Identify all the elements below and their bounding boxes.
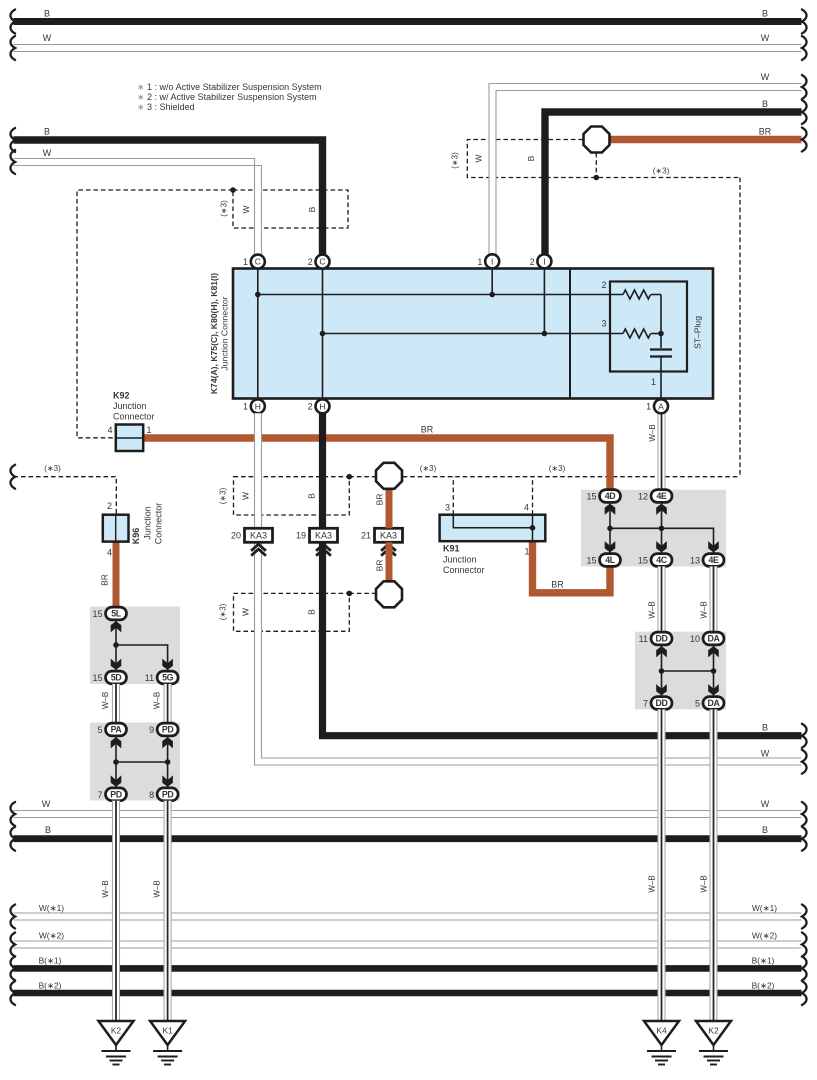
svg-text:BR: BR [100,574,110,586]
svg-text:B: B [762,723,768,733]
svg-text:9: 9 [149,725,154,735]
svg-text:W–B: W–B [153,880,162,897]
svg-text:B: B [307,609,317,615]
svg-text:W–B: W–B [700,875,709,892]
gray splice box R2 (DD/DA) [635,632,726,710]
wire-break W bus left [10,36,15,60]
svg-text:4D: 4D [605,491,615,501]
svg-text:K4: K4 [656,1026,667,1036]
svg-text:4: 4 [524,503,529,513]
svg-text:BR: BR [421,425,434,435]
splice 9 PD oval [157,723,178,736]
conductor 1C to 1H inside block [257,269,259,400]
wire B second-left going to pin 2C [14,140,323,255]
arrow up into 9PD [162,737,173,748]
gray splice box L2 (PA/PD) [90,723,180,801]
svg-text:1: 1 [646,402,651,412]
junction dot row2 x 2I [542,331,548,337]
junction connector K92 box [116,425,143,452]
wire-break W lower left [10,802,15,826]
wire-break B bus left [10,10,15,34]
svg-text:Connector: Connector [113,412,155,422]
wire-break B right mid [802,724,807,748]
svg-text:KA3: KA3 [250,531,267,541]
wire in splice R2 DD/DA [662,645,714,697]
wire-break B lower left [10,827,15,851]
wire BR octagon M1 to 21 KA3 [386,487,393,528]
svg-text:W–B: W–B [153,692,162,709]
svg-text:W: W [241,492,251,500]
junction connector K96 box [103,515,129,542]
svg-text:7: 7 [97,790,102,800]
wire-break B(*1) right [802,956,807,980]
svg-text:12: 12 [638,492,648,502]
arrow up into 12 4E [656,504,667,515]
junction dot splice R1 mid [659,526,665,532]
chevron arrows below 20 KA3 [251,544,266,556]
svg-text:5: 5 [695,699,700,709]
dashed horizontal mid y=476.7 main segment [403,476,740,478]
wire-break BR top right [802,128,807,152]
wire B from pin 2H down and right to edge [323,413,802,735]
shield dashed box mid-2 (W/B) [234,593,350,631]
capacitor C1 in ST-plug [650,350,672,357]
wire-break B(*2) left [10,981,15,1005]
svg-text:15: 15 [92,609,102,619]
junction dot splice L2 left [113,759,119,765]
wire in splice L2 PA/PD [116,736,168,788]
svg-text:W: W [43,148,52,158]
svg-text:2: 2 [107,501,112,511]
dashed stub below octagon T1 [595,153,597,178]
svg-text:W: W [43,33,52,43]
svg-text:BR: BR [375,560,385,572]
svg-text:1: 1 [243,257,248,267]
pin 1 H connector circle [251,399,265,413]
junction dot splice L2 right [165,759,171,765]
wire-break W(*2) left [10,933,15,957]
svg-text:C: C [255,257,261,267]
ST-Plug box [610,282,687,372]
svg-text:PA: PA [111,725,123,735]
svg-text:B: B [44,9,50,19]
bus wire B(*1) [14,965,802,972]
svg-text:B(∗2): B(∗2) [39,980,62,990]
shield ground octagon M2 [376,581,402,607]
wire-break W right mid [802,750,807,774]
splice 15 4L oval [600,554,621,567]
splice 15 4C oval [651,554,672,567]
conductor capacitor to pin 1A [660,357,662,400]
svg-text:H: H [255,401,261,411]
svg-text:1: 1 [524,547,529,557]
wire BR from K91 pin 1 to splice 15 4L [533,541,611,593]
svg-text:W: W [761,799,770,809]
dashed verticals to K91 pins 3 and 4 [453,477,532,515]
svg-text:11: 11 [145,673,154,683]
splice 10 DA oval [703,632,724,645]
svg-text:(∗3): (∗3) [220,200,229,217]
junction dot dashed box mid-1 corner [347,474,353,480]
svg-text:8: 8 [149,790,154,800]
conductor stub 2I [543,269,545,334]
svg-text:19: 19 [296,531,306,541]
junction dot on dashed outline at (233,190) [230,187,236,193]
shield ground octagon M1 [376,463,402,489]
wire W-B from pin 1A down to splice 12 4E [658,413,666,490]
wire R2 to vertical [651,294,661,296]
svg-text:W: W [42,799,51,809]
svg-text:B: B [307,493,317,499]
connector 21 KA3 box [375,528,403,542]
wire W top-right going to pin 1I [489,84,802,256]
svg-text:B: B [526,155,536,161]
svg-text:15: 15 [586,492,596,502]
svg-text:(∗3): (∗3) [44,464,61,473]
junction dot splice R2 left [659,668,665,674]
splice 15 5L oval [106,607,127,620]
arrow down into 5G [162,659,173,670]
splice 8 PD oval [157,788,178,801]
svg-text:(∗3): (∗3) [219,487,228,504]
arrow down into 7DD [656,684,667,695]
splice 15 5D oval [106,671,127,684]
wire W from pin 1H down and right to edge [255,413,802,765]
ground K4 [644,1021,679,1065]
arrow down into 5D [111,659,122,670]
wire-break W(*1) left [10,905,15,929]
svg-text:W: W [241,608,251,616]
svg-text:K2: K2 [708,1026,719,1036]
dashed vertical right side x=740 [739,178,741,477]
shield dashed box mid-1 (W/B) [234,477,350,515]
wire-break W lower right [802,802,807,826]
svg-text:DA: DA [708,698,721,708]
svg-text:(∗3): (∗3) [451,152,460,169]
splice 7 PD oval [106,788,127,801]
conductor row 2 to ST-plug resistor 3 [323,333,624,335]
wire-break W(*2) right [802,933,807,957]
svg-text:W–B: W–B [101,692,110,709]
splice 7 DD oval [651,697,672,710]
wire-break B bus right [802,10,807,34]
svg-text:5G: 5G [162,673,173,683]
conductor stub 1I [491,269,493,295]
splice 11 5G oval [157,671,178,684]
svg-text:5: 5 [97,725,102,735]
wire-break W(*1) right [802,905,807,929]
svg-text:4C: 4C [656,555,667,565]
wire-break B second left [10,128,15,152]
svg-text:1: 1 [651,377,656,387]
svg-text:3: 3 [445,503,450,513]
conductor 2C to 2H inside block [322,269,324,400]
svg-text:5D: 5D [111,673,121,683]
svg-text:(∗3): (∗3) [420,464,437,473]
svg-text:4E: 4E [709,555,719,565]
wire-break B(*2) right [802,981,807,1005]
shield ground octagon T1 [584,127,610,153]
svg-text:BR: BR [551,580,564,590]
svg-text:Connector: Connector [443,565,485,575]
svg-text:Junction: Junction [143,506,153,540]
svg-text:H: H [319,401,325,411]
svg-text:W: W [761,72,770,82]
svg-text:DA: DA [708,634,721,644]
svg-text:K92: K92 [113,391,130,401]
wire W-B 5G to 9PD [164,684,172,723]
resistor R2 in ST-plug [623,290,651,299]
junction dot ST-plug [658,331,664,337]
svg-text:2: 2 [601,280,606,290]
svg-text:K96: K96 [131,528,141,545]
svg-text:C: C [319,257,325,267]
wire W-B 5D to PA [112,684,120,723]
svg-text:K74(A), K75(C), K80(H), K81(I): K74(A), K75(C), K80(H), K81(I) [209,273,219,394]
shield outline (*3) to K92, left tall dashed box [77,190,233,438]
svg-text:A: A [658,401,664,411]
svg-text:15: 15 [92,673,102,683]
pin 2 I connector circle [537,254,551,268]
dashed horizontal mid y=476.7 segment to octagon M1 [349,476,375,478]
arrow down into 13 4E [708,541,719,552]
svg-text:∗ 2 : w/ Active Stabilizer Sus: ∗ 2 : w/ Active Stabilizer Suspension Sy… [137,92,317,102]
gray splice box L1 (5L/5D/5G) [90,607,180,685]
junction connector K91 box [440,515,546,542]
svg-text:Junction Connector: Junction Connector [220,296,230,370]
svg-text:W: W [761,33,770,43]
wire BR 21 KA3 to octagon M2 [386,542,393,583]
svg-text:B: B [762,9,768,19]
arrow down into 15 4C [656,541,667,552]
arrow down into 15 4L [605,541,616,552]
dashed segment box mid-2 to octagon M2 [349,592,375,594]
svg-text:2: 2 [308,402,313,412]
ground K1 [150,1021,185,1065]
svg-text:PD: PD [162,725,173,735]
arrow down into 5DA [708,684,719,695]
svg-text:∗ 1 : w/o Active Stabilizer Su: ∗ 1 : w/o Active Stabilizer Suspension S… [137,82,322,92]
svg-text:W: W [241,205,251,213]
splice 11 DD oval [651,632,672,645]
wire W-B 4C to 11DD [658,566,666,632]
svg-text:W: W [474,154,484,162]
wire BR top-right to shield octagon T1 [606,136,802,144]
wire BR from K92 pin 1 to splice 4D [143,438,610,491]
svg-text:21: 21 [361,531,371,541]
svg-text:7: 7 [643,699,648,709]
wire W-B 7DD to ground K4 [658,709,666,1021]
junction dot dashed box mid-2 corner [347,591,353,597]
wire R3 to vertical [651,333,661,335]
bus wire W(*2) [14,941,802,948]
junction connector K74/K75/K80/K81 block [233,269,713,399]
shield sub-box top left (W/B into junction connector) [233,190,348,228]
svg-text:1: 1 [477,257,482,267]
bus wire B lower [14,835,802,842]
junction dot row1 x 1C [255,292,261,298]
wire-break B top right [802,100,807,124]
svg-text:(∗3): (∗3) [549,464,566,473]
arrow up into 15 4D [605,504,616,515]
svg-text:K91: K91 [443,544,460,554]
pin 1 A connector circle [654,399,668,413]
svg-text:W(∗2): W(∗2) [752,931,777,941]
svg-text:ST–Plug: ST–Plug [693,316,703,349]
pin 2 H connector circle [316,399,330,413]
svg-text:15: 15 [638,556,648,566]
svg-text:5L: 5L [111,609,121,619]
connector 20 KA3 box [245,528,273,542]
svg-text:B(∗1): B(∗1) [752,956,775,966]
junction dot row2 x 2C [320,331,326,337]
svg-text:B(∗1): B(∗1) [39,956,62,966]
svg-text:W–B: W–B [700,601,709,618]
wire W-B 13 4E to 10DA [710,566,718,632]
wire W-B 5DA to ground K2 [710,709,718,1021]
junction dot splice R1 left [607,526,613,532]
svg-text:13: 13 [690,556,700,566]
svg-text:BR: BR [759,127,772,137]
svg-text:PD: PD [162,789,173,799]
chevron arrows below 21 KA3 [381,544,396,556]
svg-text:2: 2 [530,257,535,267]
arrow down into 7PD [111,775,122,786]
wire B top-right going to pin 2I [545,112,802,255]
svg-text:1: 1 [243,402,248,412]
svg-text:I: I [491,256,493,266]
svg-text:4E: 4E [657,491,667,501]
svg-text:BR: BR [375,494,385,506]
wire-break W top right [802,75,807,99]
arrow up into 10DA [708,646,719,657]
splice 5 PA oval [106,723,127,736]
wire-break B(*1) left [10,956,15,980]
svg-text:4L: 4L [605,555,615,565]
svg-text:KA3: KA3 [380,531,397,541]
svg-text:DD: DD [656,634,668,644]
bus wire W lower [14,811,802,818]
svg-text:11: 11 [639,634,648,644]
svg-text:K1: K1 [162,1026,173,1036]
wire in splice R1 4D/4E to 4L/4C/4E [610,503,714,555]
svg-text:W–B: W–B [648,424,657,441]
svg-text:3: 3 [601,319,606,329]
svg-text:W(∗1): W(∗1) [39,903,64,913]
svg-text:(∗3): (∗3) [219,603,228,620]
svg-text:2: 2 [308,257,313,267]
arrow up into 5PA [111,737,122,748]
splice 15 4D oval [600,490,621,503]
svg-text:W(∗1): W(∗1) [752,903,777,913]
gray splice box R1 (4D/4E/4L/4C) [581,490,726,567]
arrow down into 8PD [162,775,173,786]
junction dot splice R2 right [711,668,717,674]
junction dot row1 x 1I [489,292,495,298]
vertical conductor in ST-plug [660,295,662,349]
pin 2 C connector circle [316,255,330,269]
svg-text:W: W [761,749,770,759]
dashed (*3) branch to K96 [14,477,117,515]
wire W-B 8PD to ground K1 [164,801,172,1021]
svg-text:B: B [762,825,768,835]
svg-text:W–B: W–B [648,601,657,618]
splice 12 4E oval [651,490,672,503]
svg-text:B(∗2): B(∗2) [752,980,775,990]
svg-text:∗ 3 : Shielded: ∗ 3 : Shielded [137,102,195,112]
svg-text:Junction: Junction [443,555,477,565]
wire-break W bus right [802,36,807,60]
divider line in junction block [569,269,571,399]
svg-text:B: B [44,127,50,137]
shield outline top-right (*3) around octagon T1 [467,140,740,178]
splice 13 4E oval [703,554,724,567]
pin 1 C connector circle [251,255,265,269]
svg-text:4: 4 [107,548,112,558]
junction dot on dashed at (596.3,177.5) [594,175,600,181]
bus wire W(*1) [14,913,802,920]
svg-text:DD: DD [656,698,668,708]
wire-break B lower right [802,827,807,851]
conductor row 1 to ST-plug resistor 2 [258,294,623,296]
wire W second-left going to pin 1C [14,159,262,256]
wire BR K96 to splice 15 5L [113,542,120,609]
junction dot in K91 [530,525,536,531]
svg-text:Connector: Connector [154,503,164,545]
wire W-B 7PD to ground K2 [112,801,120,1021]
svg-text:(∗3): (∗3) [653,167,670,176]
junction dot splice L1 [113,642,119,648]
chevron arrows below 19 KA3 [316,544,331,556]
svg-text:Junction: Junction [113,401,147,411]
pin 1 I connector circle [485,254,499,268]
wire-break squiggle left of (*3) branch [10,465,15,489]
wire-break W second left [10,150,15,174]
legend note *1 *2 *3 [137,82,322,112]
svg-text:20: 20 [231,531,241,541]
resistor R3 in ST-plug [623,329,651,338]
svg-text:K2: K2 [111,1026,122,1036]
svg-text:I: I [543,256,545,266]
svg-text:4: 4 [107,425,112,435]
ground K2 left [99,1021,134,1065]
ground K2 right [696,1021,731,1065]
svg-text:B: B [45,825,51,835]
bus wire B top-left [14,18,802,25]
svg-text:1: 1 [147,425,152,435]
connector 19 KA3 box [310,528,338,542]
svg-text:15: 15 [586,556,596,566]
wire in splice L1 5L to 5D/5G [116,620,168,671]
svg-text:W–B: W–B [101,880,110,897]
svg-text:KA3: KA3 [315,531,332,541]
bus wire W top-left [14,45,802,52]
svg-text:W–B: W–B [648,875,657,892]
bus wire B(*2) [14,990,802,997]
arrow up into 5L [111,621,122,632]
splice 5 DA oval [703,697,724,710]
svg-text:10: 10 [690,634,700,644]
arrow up into 11DD [656,646,667,657]
svg-text:W(∗2): W(∗2) [39,931,64,941]
svg-text:PD: PD [110,789,121,799]
svg-text:B: B [762,99,768,109]
svg-text:B: B [307,206,317,212]
